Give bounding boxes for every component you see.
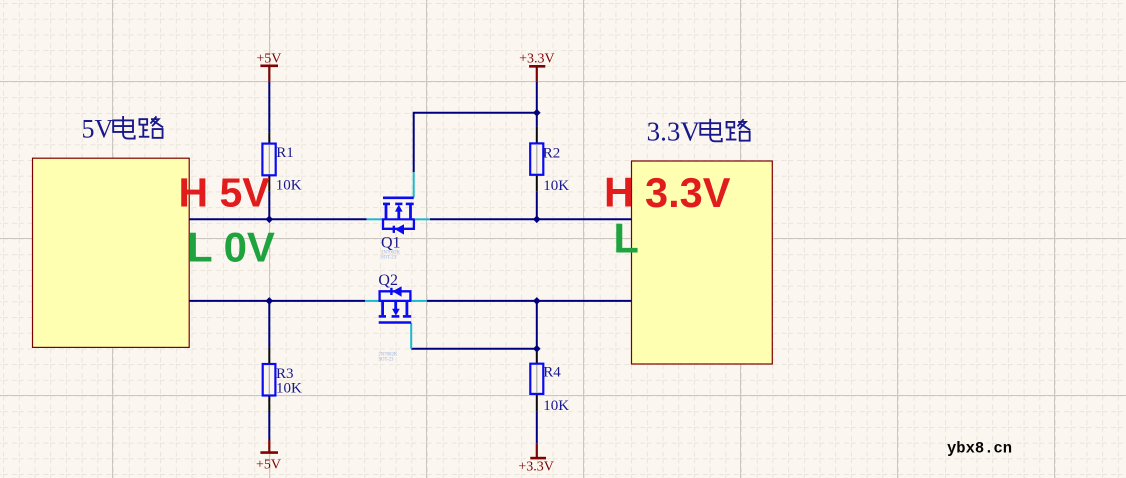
- wire lower net left: [189, 300, 365, 302]
- svg-text:R1: R1: [276, 145, 294, 161]
- svg-text:10K: 10K: [543, 398, 569, 414]
- svg-text:5V: 5V: [82, 115, 114, 144]
- transistor Q1 (N-MOSFET): [382, 198, 415, 235]
- svg-text:+5V: +5V: [256, 52, 281, 67]
- label Q2: [378, 272, 398, 362]
- svg-text:ybx8.cn: ybx8.cn: [947, 440, 1012, 458]
- svg-text:SOT-23: SOT-23: [378, 357, 394, 362]
- watermark ybx8.cn: [947, 440, 1012, 458]
- pin Q2 gate (cyan): [410, 323, 412, 349]
- power +5V top: [256, 52, 281, 82]
- svg-text:10K: 10K: [276, 381, 302, 397]
- transistor Q2 (N-MOSFET, mirrored): [379, 286, 412, 322]
- wire R1 rail top: [268, 82, 270, 133]
- svg-text:10K: 10K: [543, 178, 569, 194]
- CJK lu: [139, 116, 163, 137]
- svg-text:Q1: Q1: [381, 235, 401, 252]
- pin Q1 source: [367, 218, 382, 220]
- label R1: [276, 145, 302, 194]
- junction node upper-R1: [266, 216, 274, 224]
- svg-text:R2: R2: [543, 146, 561, 162]
- wire lower net right: [427, 300, 632, 302]
- wire upper net left (5V side): [189, 218, 367, 220]
- label 3.3V circuit title: [647, 116, 751, 146]
- wire R2 to node: [536, 191, 538, 219]
- label 5V circuit title: [82, 115, 164, 144]
- pin Q1 gate (cyan): [413, 172, 415, 197]
- label Q1: [381, 235, 401, 261]
- annotation H 5V (left): [179, 170, 271, 216]
- annotation L (right): [614, 214, 639, 261]
- wire Q1 gate to R2 top node: [414, 113, 537, 173]
- svg-text:L: L: [614, 214, 639, 261]
- wire R3 to power: [268, 412, 270, 441]
- svg-text:3.3V: 3.3V: [645, 169, 731, 216]
- power +5V bottom: [256, 440, 281, 473]
- pin R2 top: [536, 127, 538, 143]
- 5V circuit block (yellow box): [33, 158, 190, 347]
- svg-text:+3.3V: +3.3V: [519, 52, 555, 67]
- resistor R3: [263, 364, 276, 396]
- annotation L 0V (left): [187, 224, 275, 271]
- wire R4 to power: [536, 411, 538, 443]
- pin Q1 drain: [415, 218, 430, 220]
- svg-text:R4: R4: [543, 365, 561, 381]
- pin R3 top: [268, 348, 270, 364]
- pin R2 bottom: [536, 175, 538, 192]
- wire node to gate node R4: [536, 301, 538, 350]
- pin R4 bottom: [536, 394, 538, 411]
- junction node lower-R3: [266, 297, 274, 305]
- wire Q2 gate to R4 top node: [411, 348, 537, 350]
- resistor R4: [530, 364, 543, 394]
- power +3.3V top: [519, 52, 555, 82]
- label R2: [543, 146, 570, 194]
- pin R1 top (black): [268, 133, 270, 144]
- wire upper net right (3.3V side): [430, 218, 632, 220]
- resistor R2: [530, 143, 543, 174]
- wire node to R3: [268, 301, 270, 348]
- CJK dian: [700, 119, 721, 142]
- junction node upper-R2: [533, 216, 541, 224]
- pin R3 bottom: [268, 396, 270, 412]
- svg-text:L 0V: L 0V: [187, 224, 275, 271]
- pin Q2 drain: [411, 300, 427, 302]
- svg-text:Q2: Q2: [378, 272, 398, 289]
- svg-text:3.3V: 3.3V: [647, 116, 701, 146]
- CJK dian: [113, 116, 134, 139]
- pin R1 bottom: [268, 175, 270, 191]
- label R3: [276, 366, 302, 397]
- svg-text:+3.3V: +3.3V: [518, 460, 554, 475]
- CJK lu: [726, 119, 750, 140]
- svg-text:H: H: [604, 169, 634, 216]
- svg-text:H 5V: H 5V: [179, 170, 271, 216]
- svg-text:SOT-23: SOT-23: [381, 256, 397, 261]
- junction node gate1-R2top: [533, 109, 541, 117]
- label R4: [543, 365, 569, 414]
- svg-text:+5V: +5V: [256, 458, 281, 473]
- wire R1 to node: [268, 191, 270, 219]
- resistor R1: [262, 144, 275, 176]
- wire R2 rail top: [536, 82, 538, 127]
- svg-text:10K: 10K: [276, 178, 302, 194]
- junction node lower-R4: [533, 297, 541, 305]
- pin Q2 source: [365, 300, 379, 302]
- pin R4 top: [536, 350, 538, 364]
- junction node gate2-R4: [533, 345, 541, 353]
- annotation H 3.3V (right): [604, 169, 731, 217]
- power +3.3V bottom: [518, 443, 554, 474]
- 3.3V circuit block (yellow box): [632, 161, 773, 364]
